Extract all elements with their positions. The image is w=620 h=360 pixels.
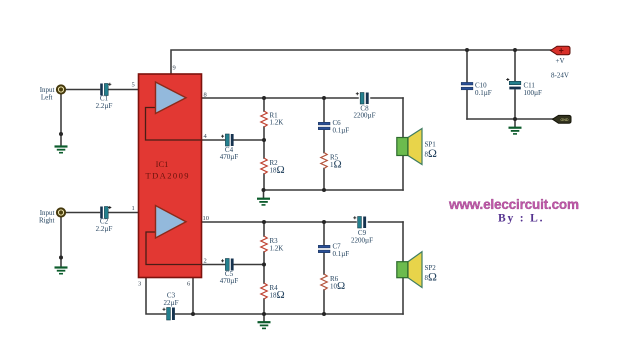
svg-text:GND: GND: [561, 118, 569, 122]
svg-text:1.2K: 1.2K: [270, 119, 284, 127]
svg-text:Right: Right: [39, 217, 55, 225]
svg-text:1.2K: 1.2K: [270, 245, 284, 253]
op-amp IC U1 TDA2009 body: [139, 74, 202, 278]
wire pin 3 riser: [146, 278, 166, 315]
resistor R2: [261, 158, 285, 176]
svg-text:470µF: 470µF: [220, 277, 239, 285]
capacitor C9: [351, 216, 373, 244]
wire pin9 riser and +V top rail: [171, 50, 552, 74]
node C7 top: [322, 220, 326, 224]
node C11 bottom: [513, 117, 517, 121]
wire input left to C1: [66, 89, 100, 91]
wire C6 R5 branch: [323, 98, 325, 122]
wire pin 8 output: [202, 97, 359, 99]
svg-text:2200µF: 2200µF: [354, 112, 376, 120]
feedback line upper amp: [146, 108, 202, 141]
svg-text:2.2µF: 2.2µF: [96, 102, 113, 110]
capacitor C6: [318, 119, 349, 135]
svg-text:5: 5: [132, 82, 135, 89]
svg-text:Left: Left: [41, 94, 53, 102]
capacitor C4: [220, 134, 239, 161]
connector +V: [551, 46, 571, 79]
ground channel1: [257, 199, 270, 205]
ground input right: [55, 268, 68, 274]
node R1 top: [262, 96, 266, 100]
ground input left: [55, 147, 68, 153]
svg-text:IC1: IC1: [156, 159, 169, 169]
svg-text:8-24V: 8-24V: [551, 72, 569, 80]
wire pin 2 to C5: [202, 264, 225, 266]
svg-text:22µF: 22µF: [164, 299, 179, 307]
capacitor C5: [220, 259, 239, 286]
wire power bottom to GND tag: [467, 118, 553, 120]
svg-text:9: 9: [173, 65, 176, 72]
svg-text:470µF: 470µF: [220, 153, 239, 161]
speaker SP2: [397, 252, 437, 288]
node R5 bottom: [322, 188, 326, 192]
capacitor C2: [96, 206, 113, 233]
svg-text:2.2µF: 2.2µF: [96, 225, 113, 233]
svg-text:10: 10: [203, 215, 210, 222]
node ch2 ground: [262, 312, 266, 316]
svg-text:2200µF: 2200µF: [351, 237, 373, 245]
wire R1 leads: [263, 98, 265, 111]
wire R3 leads: [263, 222, 265, 236]
wire SP2 column: [402, 222, 404, 314]
node jack right wire: [59, 256, 63, 260]
ground channel2: [258, 322, 271, 328]
svg-text:2: 2: [204, 258, 207, 265]
wire SP1 column: [402, 98, 404, 190]
node pin2: [262, 263, 266, 267]
wire ground stub power: [514, 119, 516, 127]
resistor R4: [261, 283, 285, 301]
wire jack left to ground: [60, 94, 62, 146]
ground power: [509, 128, 522, 134]
wire pin 10 output: [202, 221, 357, 223]
wire C5 to node: [234, 264, 265, 266]
wire pin 4 to C4: [202, 139, 225, 141]
capacitor C11: [506, 78, 542, 97]
speaker SP1: [397, 129, 437, 165]
wire C8 to speaker column: [371, 97, 403, 99]
capacitor C7: [318, 243, 349, 259]
wire C2 to pin 1: [109, 212, 139, 214]
svg-text:100µF: 100µF: [524, 89, 543, 97]
wire R4 leads: [263, 265, 265, 284]
capacitor C1: [96, 83, 113, 110]
wire input right to C2: [66, 212, 100, 214]
svg-text:3: 3: [138, 281, 141, 288]
svg-text:0.1µF: 0.1µF: [333, 127, 350, 135]
wire channel2 bottom: [176, 313, 404, 315]
wire jack right to ground: [60, 217, 62, 267]
op-amp triangle lower: [156, 206, 187, 239]
node R6 bottom: [322, 312, 326, 316]
resistor R1: [261, 111, 284, 127]
svg-text:TDA2009: TDA2009: [146, 171, 189, 181]
node pin6: [191, 312, 195, 316]
wire ground stub ch2: [263, 314, 265, 321]
resistor R6: [321, 274, 345, 292]
capacitor C8: [354, 92, 376, 119]
svg-text:0.1µF: 0.1µF: [475, 89, 492, 97]
connector GND: [553, 115, 572, 123]
node C11 top: [513, 48, 517, 52]
node pin4: [262, 138, 266, 142]
wire C11 branch: [514, 50, 516, 81]
svg-text:0.1µF: 0.1µF: [333, 250, 350, 258]
node ch1 ground: [262, 188, 266, 192]
svg-text:1: 1: [132, 205, 135, 212]
svg-text:18Ω: 18Ω: [270, 164, 285, 176]
resistor R5: [321, 153, 342, 171]
input jack J2 right: [39, 208, 65, 224]
node C10 top: [465, 48, 469, 52]
capacitor C3: [163, 292, 179, 321]
capacitor C10: [461, 82, 492, 98]
wire C7 R6 branch: [323, 222, 325, 245]
wire C1 to pin 5: [109, 89, 139, 91]
node R3 top: [262, 220, 266, 224]
svg-text:1Ω: 1Ω: [330, 159, 342, 171]
resistor R3: [261, 236, 284, 253]
wire C10 branch: [466, 50, 468, 82]
node jack left wire: [59, 132, 63, 136]
wire C9 to speaker column: [369, 221, 404, 223]
wire C4 to node: [234, 139, 265, 141]
svg-text:18Ω: 18Ω: [270, 289, 285, 301]
svg-text:By : L.: By : L.: [498, 213, 544, 225]
svg-text:+V: +V: [556, 57, 565, 65]
wire ground stub ch1: [263, 190, 265, 198]
wire channel1 bottom: [264, 189, 404, 191]
svg-text:www.eleccircuit.com: www.eleccircuit.com: [448, 197, 579, 212]
svg-text:10Ω: 10Ω: [330, 280, 345, 292]
wire pin 6 riser: [192, 278, 194, 315]
feedback line lower amp: [146, 232, 201, 265]
op-amp triangle upper: [156, 82, 187, 114]
svg-text:8: 8: [204, 92, 207, 99]
input jack J1 left: [40, 85, 65, 101]
node C6 top: [322, 96, 326, 100]
wire R2 leads: [263, 140, 265, 158]
